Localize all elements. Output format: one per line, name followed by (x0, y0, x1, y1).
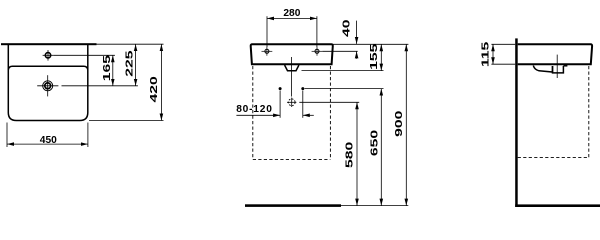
svg-text:420: 420 (148, 76, 160, 102)
svg-text:80-120: 80-120 (236, 104, 273, 115)
svg-text:580: 580 (343, 142, 355, 168)
svg-text:450: 450 (40, 135, 57, 146)
svg-text:155: 155 (368, 43, 380, 70)
svg-text:115: 115 (479, 41, 491, 67)
svg-text:225: 225 (123, 50, 135, 77)
svg-text:900: 900 (393, 111, 405, 137)
svg-text:280: 280 (283, 8, 300, 19)
svg-text:650: 650 (368, 130, 380, 156)
svg-text:165: 165 (100, 54, 112, 81)
svg-text:40: 40 (340, 20, 352, 38)
